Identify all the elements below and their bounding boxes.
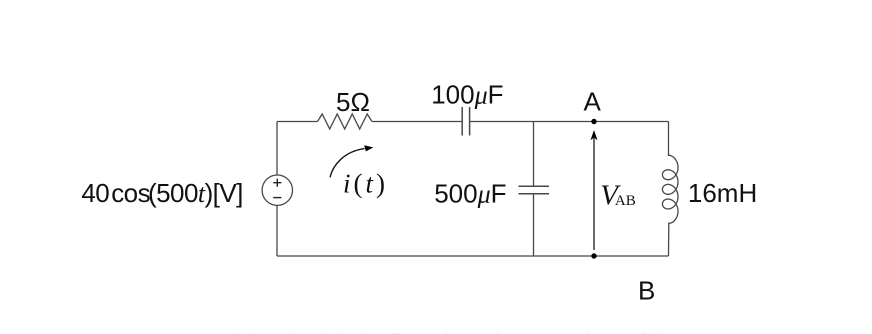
wire middle branch lower [533,194,535,256]
svg-text:VAB: VAB [600,179,636,211]
current arrow i(t) head [365,146,373,151]
node A dot [591,119,596,124]
svg-text:40cos(500t)[V]: 40cos(500t)[V] [81,178,242,208]
voltage source plus sign [273,179,281,187]
inductor L1 16mH coil [662,155,678,223]
arrow VAB line [593,138,595,250]
svg-text:A: A [584,87,602,117]
resistor 5ohm [318,114,373,129]
current arrow i(t) arc [330,149,365,178]
wire bottom [277,255,669,257]
wire middle branch upper [533,122,535,187]
arrow VAB head [591,131,596,139]
svg-text:i(t): i(t) [343,168,388,198]
voltage source minus sign [273,197,281,199]
svg-text:36. A circuit in the figure ha: 36. A circuit in the figure has element … [230,328,680,334]
svg-text:100μF: 100μF [431,79,503,109]
wire left vertical top [276,122,278,176]
capacitor C1 100uF plates [462,107,469,136]
svg-text:B: B [638,275,655,305]
wire top segment source to resistor [277,121,318,123]
wire left vertical bottom [276,205,278,256]
svg-text:5Ω: 5Ω [336,87,370,117]
voltage source VS circle [262,175,292,205]
wire C1 to right corner [470,121,669,123]
svg-text:16mH: 16mH [688,178,757,208]
capacitor C2 500uF plates [519,186,550,193]
wire resistor to C1 [372,121,462,123]
svg-text:500μF: 500μF [434,178,506,208]
wire right vertical bottom [668,223,670,257]
node B dot [591,253,596,258]
wire right vertical top [668,122,670,157]
